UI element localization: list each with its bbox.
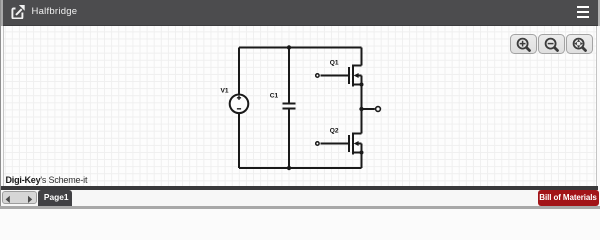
wire Q1 source to output node bbox=[361, 85, 363, 110]
wire C1 top lead bbox=[288, 48, 290, 104]
label Q1 bbox=[330, 59, 339, 66]
label V1 bbox=[221, 87, 229, 94]
schematic title bbox=[32, 6, 78, 17]
wire V1 bottom lead bbox=[238, 113, 240, 168]
bottom edge bbox=[0, 206, 600, 210]
capacitor C1 bbox=[283, 104, 296, 109]
Bill of Materials button bbox=[538, 190, 599, 206]
wire Q1 drain to top rail bbox=[361, 48, 363, 66]
top toolbar bbox=[3, 0, 598, 26]
transistor Q1 (NMOS) bbox=[316, 65, 364, 87]
svg-text:Q2: Q2 bbox=[330, 127, 339, 134]
node junction top rail / C1 bbox=[287, 45, 291, 49]
bottom tab bar bbox=[1, 190, 598, 206]
node output junction bbox=[359, 107, 363, 111]
left frame edge bbox=[0, 0, 1, 206]
external-link icon bbox=[11, 4, 25, 19]
output terminal bbox=[376, 107, 381, 112]
wire C1 bottom lead bbox=[288, 109, 290, 168]
wire output stub bbox=[362, 108, 375, 110]
zoom-fit button bbox=[566, 34, 593, 55]
transistor Q2 (NMOS) bbox=[316, 133, 364, 155]
label Q2 bbox=[330, 127, 339, 134]
wire Q2 source to bottom rail bbox=[361, 153, 363, 169]
node junction bottom rail / C1 bbox=[287, 166, 291, 170]
zoom-out button bbox=[538, 34, 565, 55]
wire output node to Q2 drain bbox=[361, 109, 363, 134]
wire bottom rail bbox=[239, 167, 362, 169]
svg-text:V1: V1 bbox=[221, 87, 229, 94]
svg-text:C1: C1 bbox=[270, 93, 279, 100]
voltage source V1 bbox=[230, 95, 249, 114]
hamburger menu icon bbox=[577, 6, 589, 21]
wire V1 top lead bbox=[238, 48, 240, 95]
page nav arrows bbox=[2, 191, 38, 204]
Page1 tab bbox=[38, 190, 72, 206]
dark divider strip bbox=[1, 186, 598, 190]
schematic canvas with grid bbox=[3, 26, 597, 186]
label C1 bbox=[270, 93, 279, 100]
zoom-in button bbox=[510, 34, 537, 55]
branding text bbox=[6, 175, 88, 185]
wire top rail bbox=[239, 47, 362, 49]
svg-text:Q1: Q1 bbox=[330, 59, 339, 66]
